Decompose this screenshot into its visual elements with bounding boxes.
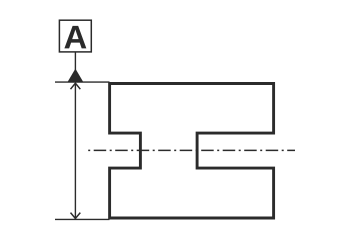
datum letter A: [64, 26, 86, 49]
part outline with side slots: [110, 84, 274, 219]
datum label frame A: [59, 20, 91, 52]
dimension arrowhead up: [71, 83, 81, 89]
bottom extension line: [55, 218, 110, 220]
dimension line: [74, 83, 76, 218]
centre line (dash-dot): [88, 149, 295, 151]
dimension arrowhead down: [71, 213, 81, 219]
leader wire from frame to datum triangle: [74, 52, 76, 71]
datum feature triangle (filled): [68, 69, 84, 82]
top extension line: [55, 81, 110, 83]
